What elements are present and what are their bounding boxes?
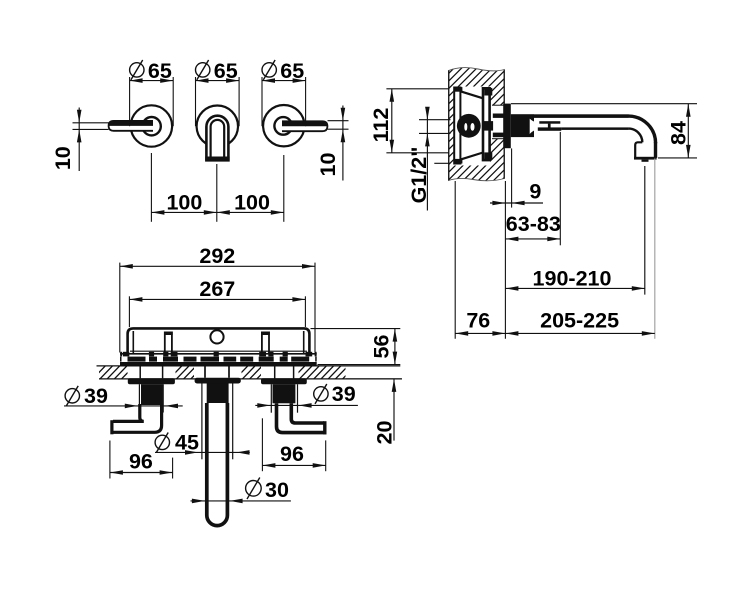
union nut on spout: [539, 121, 560, 124]
svg-text:63-83: 63-83: [506, 212, 561, 236]
svg-text:39: 39: [84, 384, 108, 408]
spout bend outer: [629, 116, 656, 143]
rough-in body box: [128, 328, 310, 354]
center escutcheon circle: [197, 106, 238, 147]
svg-text:G1/2": G1/2": [407, 147, 431, 204]
right valve sleeve lines: [270, 384, 272, 413]
white cutouts: body zone and spout hole: [453, 87, 490, 166]
spout block at wall: [511, 114, 534, 137]
dimension dia65 at x=151.4: [129, 77, 131, 126]
gray extension line outlet outer edge: [654, 159, 656, 339]
svg-text:65: 65: [280, 59, 304, 83]
dimension 63-83: [559, 132, 561, 245]
dimension 96 right: [261, 418, 263, 471]
dimension 76: [455, 332, 505, 334]
extension line body back: [454, 181, 456, 339]
escutcheon front extension line: [511, 148, 513, 207]
dimension 100 + 100: [150, 153, 152, 222]
cartridge circle: [457, 114, 481, 138]
dimension dia39 right: [255, 404, 358, 406]
left valve flange: [128, 378, 175, 384]
spout tube bottom line: [561, 127, 629, 129]
body cone lines: [461, 91, 483, 98]
svg-text:65: 65: [148, 59, 172, 83]
wall face extension line: [504, 181, 506, 339]
flange bottom bar: [120, 362, 317, 366]
dimension 190-210: [644, 166, 646, 295]
left rib: [164, 332, 166, 354]
svg-text:205-225: 205-225: [540, 308, 619, 332]
svg-text:39: 39: [332, 382, 356, 406]
box end inner lines: [132, 331, 134, 354]
dimension dia45: [155, 451, 250, 453]
svg-text:9: 9: [529, 179, 541, 203]
svg-text:10: 10: [316, 153, 340, 177]
top hole circle: [210, 330, 223, 343]
svg-text:292: 292: [199, 244, 235, 268]
right rib: [261, 332, 263, 354]
right handle escutcheon circle: [263, 105, 304, 146]
left valve block: [141, 384, 163, 405]
pipes crossing wall: [139, 366, 141, 378]
spout bend inner: [629, 129, 643, 143]
right valve flange: [261, 378, 307, 384]
left L pipe: [113, 404, 162, 432]
label G1/2: [419, 119, 451, 121]
svg-text:112: 112: [369, 108, 393, 143]
center sleeve lines: [201, 383, 203, 459]
svg-text:10: 10: [51, 146, 75, 170]
dimension 205-225: [505, 332, 654, 334]
dimension 292: [119, 263, 121, 353]
spout tube top line: [534, 114, 629, 118]
svg-text:100: 100: [166, 191, 202, 215]
svg-text:65: 65: [214, 59, 238, 83]
svg-text:96: 96: [280, 442, 304, 466]
svg-text:267: 267: [199, 277, 235, 301]
dimension dia39 left: [64, 405, 183, 407]
dimension 84: [511, 103, 697, 105]
flange clip bumps: [120, 352, 122, 357]
center spout front (U shape): [206, 116, 228, 161]
svg-text:30: 30: [265, 478, 289, 502]
svg-text:56: 56: [370, 335, 394, 359]
spout outlet: [634, 157, 657, 160]
dimension 112: [386, 88, 448, 90]
escutcheon (wall plate, side): [503, 104, 511, 149]
flange dashed bar: [120, 357, 122, 362]
right valve block: [273, 384, 296, 403]
dimension 10 left: [73, 122, 109, 124]
dimension dia30: [191, 500, 291, 502]
svg-text:96: 96: [129, 449, 153, 473]
box inner bottom line: [130, 350, 307, 352]
mounting flange band: [120, 353, 317, 355]
concealed valve body: back plate: [454, 88, 460, 164]
left lever handle: [109, 121, 153, 131]
svg-text:76: 76: [466, 308, 490, 332]
dimension 267: [128, 296, 130, 327]
dimension 10 right: [328, 120, 349, 122]
center supply pipe (U down): [207, 403, 228, 526]
dimension 9: [490, 202, 543, 204]
svg-text:100: 100: [234, 191, 270, 215]
svg-text:45: 45: [175, 431, 199, 455]
wall face edge lines: [448, 71, 450, 181]
svg-text:20: 20: [373, 421, 397, 445]
dimension 20: [346, 378, 402, 380]
center spout block: [207, 383, 229, 403]
wall section (bottom view): [97, 365, 401, 367]
body bottom ref line: [434, 162, 450, 164]
svg-text:84: 84: [666, 121, 690, 145]
center spout flange: [195, 378, 241, 384]
pipe stubs through wall hole: [493, 114, 504, 118]
left handle escutcheon circle: [131, 105, 172, 146]
right L pipe: [277, 403, 327, 432]
dimension 96 left: [109, 441, 111, 479]
dimension dia65 at x=217.3: [195, 77, 197, 126]
dimension dia65 at x=283.8: [261, 77, 263, 126]
right lever handle: [282, 121, 327, 131]
front flange plate: [483, 88, 490, 160]
dimension 56: [311, 328, 401, 330]
funnel transition: [530, 119, 539, 134]
left valve sleeve lines: [138, 384, 140, 412]
svg-text:190-210: 190-210: [533, 266, 612, 290]
